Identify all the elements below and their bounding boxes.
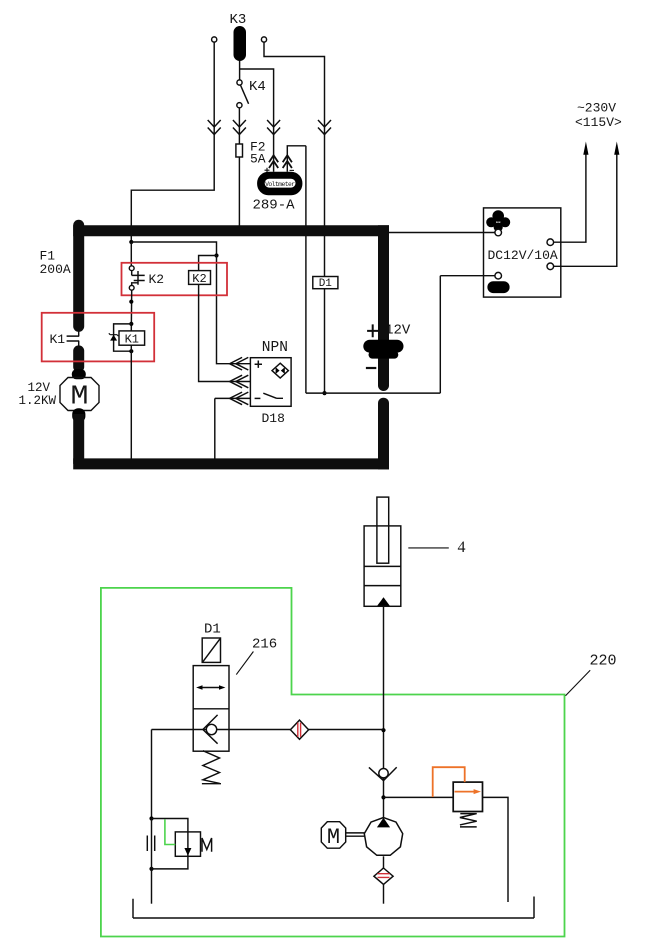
contact K1 stub upper bbox=[78, 331, 80, 336]
wire: bus from K2 contact down to coil K1 bbox=[130, 290, 132, 331]
contact K2 bars bbox=[132, 271, 145, 286]
terminal circle left bbox=[212, 37, 217, 42]
NPN sensor diamond bbox=[272, 363, 288, 378]
main battery loop: right edge lower segment bbox=[378, 398, 389, 409]
converter AC terminal circle lower bbox=[547, 263, 554, 270]
svg-text:D1: D1 bbox=[204, 622, 221, 638]
svg-text:220: 220 bbox=[590, 653, 617, 670]
svg-text:Voltmeter: Voltmeter bbox=[265, 181, 295, 188]
node dot (131.3,351.2) bbox=[129, 349, 133, 353]
converter AC terminal circle upper bbox=[547, 239, 554, 246]
cylinder 4 barrel bbox=[364, 526, 401, 606]
pipe: pump outlet tee to relief valve 220 bbox=[384, 796, 454, 798]
voltmeter right probe arrow bbox=[283, 155, 292, 168]
battery plate narrow bbox=[369, 351, 399, 359]
relay coil K2 box bbox=[189, 271, 211, 285]
NPN output switch symbol bbox=[263, 393, 283, 398]
node dot (151,868.9) bbox=[149, 867, 153, 871]
svg-text:~230V: ~230V bbox=[577, 101, 616, 116]
relief valve loop left bbox=[152, 819, 188, 869]
wire break chevrons on wire x=324.5 bbox=[318, 120, 331, 135]
svg-text:D18: D18 bbox=[262, 411, 285, 426]
pipe: filter to tank bbox=[383, 884, 385, 903]
pipe through tank-line ticks bbox=[151, 819, 153, 869]
wire: left terminal down, left, down to node at (131.3,242) bbox=[131, 42, 214, 242]
switch K4 blade bbox=[240, 85, 248, 104]
motor top terminal blob bbox=[72, 369, 86, 379]
valve 216 mid line bbox=[193, 708, 229, 710]
tank line ticks bbox=[147, 836, 154, 852]
label + (battery plus) bbox=[367, 324, 378, 337]
relief valve arrow (orange) bbox=[455, 791, 475, 793]
contact K2 bottom circle bbox=[129, 285, 134, 290]
valve 216 check ball bbox=[206, 724, 216, 734]
main battery loop: right edge upper segment bbox=[378, 225, 389, 385]
wire: node (131.3,242) right to node (216.5,255.5) bbox=[131, 242, 216, 256]
wire: AC line 2 with arrow bbox=[554, 154, 617, 266]
filter red bars bbox=[298, 723, 301, 737]
filter check symbol on pipe (red) bbox=[290, 720, 308, 739]
relief valve box left bbox=[175, 832, 200, 856]
connector chevrons NPN pin 3 bbox=[230, 392, 249, 405]
svg-text:DC12V/10A: DC12V/10A bbox=[488, 248, 558, 263]
pipe: through valve from tank line to main line bbox=[152, 729, 384, 731]
node dot (216.5,255.5) bbox=[214, 253, 218, 257]
svg-text:12V: 12V bbox=[28, 381, 51, 395]
connector chevrons NPN pin 2 bbox=[230, 375, 249, 388]
wire break chevrons on wire x=273.6 bbox=[267, 120, 280, 135]
pump outlet triangle bbox=[377, 818, 390, 828]
pipe: relief block to tank bbox=[151, 869, 153, 904]
cylinder 4 rod bbox=[377, 497, 389, 563]
left edge capsule between K1 and motor bbox=[73, 351, 84, 367]
svg-text:M: M bbox=[71, 383, 89, 413]
green pilot line bbox=[165, 819, 175, 844]
label 216 leader bbox=[236, 652, 253, 675]
wire: coil K2 bottom to NPN pin 2 bbox=[199, 284, 251, 381]
pipe: relief valve out to tank bbox=[483, 797, 509, 902]
svg-text:216: 216 bbox=[252, 637, 277, 653]
red highlight box around K1 bbox=[42, 313, 155, 362]
wire: vertical bus through K2 contact bbox=[130, 242, 132, 266]
converter input terminal circle top bbox=[495, 229, 502, 236]
converter capsule symbol bbox=[487, 281, 509, 293]
converter clover heat-sink symbol bbox=[486, 210, 510, 231]
solenoid coil box of valve 216 bbox=[202, 638, 220, 662]
pipe: valve left down to relief block bbox=[151, 730, 153, 819]
fuse K3 (black capsule) bbox=[234, 26, 247, 61]
switch K4 lower circle bbox=[237, 103, 242, 108]
motor bottom terminal blob bbox=[72, 408, 85, 422]
voltmeter left probe arrow bbox=[269, 155, 278, 168]
hydraulic power unit boundary 220 (green) bbox=[101, 588, 565, 937]
NPN pin 3 minus sign bbox=[255, 397, 261, 399]
svg-text:5A: 5A bbox=[250, 152, 266, 167]
converter input terminal circle bottom bbox=[495, 272, 502, 279]
svg-text:4: 4 bbox=[458, 539, 466, 556]
zener diode D (flyback) bbox=[109, 333, 119, 336]
DC converter box bbox=[484, 208, 561, 297]
node dot (383.5,730.2) bbox=[381, 728, 385, 732]
wire: fuse F2 down to main loop top edge bbox=[238, 157, 240, 226]
wire: coil K1 down to bottom edge bbox=[130, 345, 132, 460]
label 220 leader bbox=[566, 670, 591, 696]
fuse F2 bbox=[236, 144, 243, 157]
wire: node down to NPN pin 1 bbox=[217, 256, 251, 364]
main battery loop: bottom edge bbox=[73, 458, 389, 469]
svg-text:289-A: 289-A bbox=[253, 198, 296, 214]
pilot line (orange) bbox=[433, 767, 465, 797]
tank bbox=[133, 897, 534, 919]
wire: battery loop top right to converter input bbox=[389, 232, 495, 234]
pipe: main pressure line cylinder to pump bbox=[383, 606, 385, 826]
svg-text:1.2KW: 1.2KW bbox=[19, 394, 57, 408]
wire break chevrons on wire x=214 bbox=[208, 120, 221, 135]
polarity + at voltmeter bbox=[265, 168, 270, 173]
motor M body (electrical) bbox=[60, 378, 99, 411]
relay coil K1 box bbox=[119, 331, 145, 345]
valve 216 check seat bbox=[203, 715, 218, 744]
svg-text:K3: K3 bbox=[230, 12, 247, 28]
contact K1 bars bbox=[67, 336, 80, 341]
polarity - at voltmeter bbox=[290, 169, 295, 171]
connector chevrons NPN pin 1 bbox=[230, 357, 249, 370]
relief valve box right bbox=[453, 782, 482, 811]
svg-text:M: M bbox=[327, 825, 340, 850]
wire: K3 bottom to K4 bbox=[239, 61, 241, 80]
pipe: pump suction down bbox=[383, 856, 385, 868]
wire: AC line 1 with arrow bbox=[554, 154, 586, 242]
node dot (131.3,242) bbox=[129, 240, 133, 244]
label 4 leader bbox=[408, 547, 449, 549]
contact K1 stub lower bbox=[78, 341, 80, 346]
valve 216 double arrow bbox=[200, 687, 223, 689]
valve 216 body bbox=[193, 666, 229, 752]
check valve above pump bbox=[379, 769, 388, 778]
wire break chevrons on wire x=239 bbox=[233, 120, 246, 135]
cylinder 4 piston lines bbox=[364, 566, 401, 585]
voltmeter 289-A body bbox=[257, 172, 302, 195]
node dot (131.3,301.7) bbox=[129, 300, 133, 304]
node dot (131.3,323.9) bbox=[129, 322, 133, 326]
diode D1 box bbox=[313, 277, 338, 289]
svg-text:D1: D1 bbox=[319, 278, 333, 290]
switch K4 pivot circle bbox=[237, 80, 242, 85]
NPN sensor diamond inner triangles bbox=[276, 367, 280, 374]
NPN sensor D18 box bbox=[250, 358, 291, 407]
svg-text:NPN: NPN bbox=[262, 340, 288, 356]
NPN pin 1 plus sign bbox=[255, 361, 262, 368]
svg-text:<115V>: <115V> bbox=[575, 115, 622, 130]
suction filter diamond bbox=[374, 868, 393, 884]
label - (battery minus) bbox=[366, 367, 376, 369]
contact K2 top circle bbox=[129, 266, 134, 271]
relief valve spring left bbox=[202, 838, 212, 852]
pump body bbox=[364, 818, 402, 856]
wire: node branch to relay coil K2 top bbox=[199, 256, 217, 271]
left edge lower segment to bottom corner bbox=[73, 414, 84, 464]
battery plate wide bbox=[363, 340, 403, 353]
main battery loop: left edge upper segment (fuse F1) bbox=[73, 225, 84, 326]
svg-text:K4: K4 bbox=[249, 79, 266, 95]
svg-text:K1: K1 bbox=[125, 333, 139, 347]
svg-text:K2: K2 bbox=[192, 272, 206, 286]
voltmeter face bbox=[265, 179, 296, 188]
svg-text:K2: K2 bbox=[149, 272, 165, 287]
wire: K4 to fuse F2 bbox=[238, 108, 240, 144]
node dot (383.5,797.4) bbox=[381, 795, 385, 799]
solenoid diagonal bbox=[203, 639, 220, 662]
relief valve arrow down bbox=[184, 848, 191, 856]
node dot (151,818.5) bbox=[149, 816, 153, 820]
valve 216 spring bbox=[202, 751, 221, 784]
wire: branch from K3 bottom right and down to voltmeter left probe bbox=[240, 69, 274, 172]
wire: NPN pin 3 down to bottom edge bbox=[215, 398, 251, 460]
node dot (324.5,393.1) bbox=[322, 391, 326, 395]
cylinder 4 inlet arrow bbox=[377, 597, 390, 606]
terminal circle right bbox=[261, 37, 266, 42]
coupling lines bbox=[346, 833, 365, 836]
red highlight box around K2 bbox=[122, 263, 228, 296]
main battery loop: top edge bbox=[73, 225, 389, 236]
wire: DC node bus y=393 bbox=[306, 276, 495, 393]
svg-text:K1: K1 bbox=[50, 332, 66, 347]
relief valve spring right bbox=[460, 814, 477, 827]
diode bracket around coil K1 bbox=[114, 324, 132, 351]
voltmeter right probe wire from node (305.9,145.8) bbox=[287, 146, 306, 393]
wire: right terminal down, right, down through D1 to node (324.5,393.1) bbox=[264, 42, 325, 393]
motor M body (hydraulic) bbox=[321, 822, 345, 849]
check valve seat bbox=[369, 767, 397, 780]
svg-text:200A: 200A bbox=[40, 262, 71, 277]
suction filter red bars bbox=[378, 874, 390, 878]
